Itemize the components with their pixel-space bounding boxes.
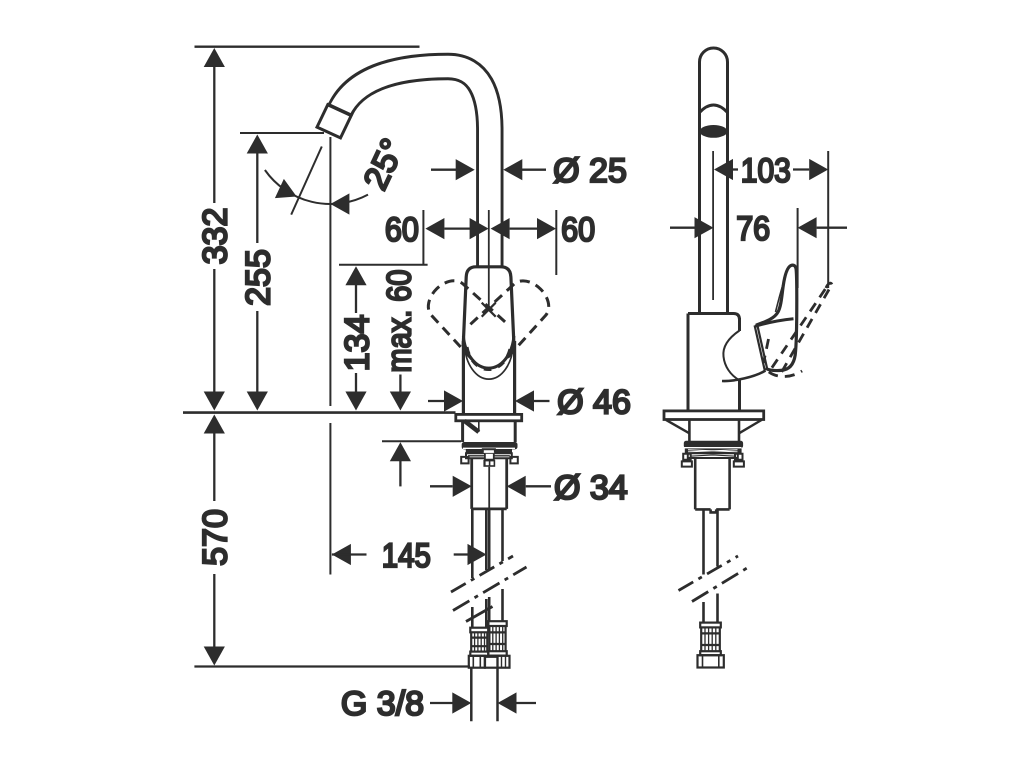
body top edge — [688, 314, 740, 320]
right hose connector — [485, 621, 510, 668]
dim 103 — [714, 159, 733, 180]
handle dome inner ring arc — [465, 345, 513, 379]
gasket band — [462, 442, 518, 449]
25 degree tilted line — [291, 147, 322, 215]
dim max 60 — [399, 375, 401, 393]
plate skirt slants — [666, 420, 762, 433]
dim 145 — [332, 544, 351, 565]
tab row (side) — [683, 454, 742, 460]
pipe inner reference line — [712, 151, 714, 300]
hose lower (side) — [704, 594, 718, 623]
svg-text:G 3/8: G 3/8 — [341, 685, 424, 723]
break lines (side) — [679, 556, 739, 591]
dim Ø 34 — [430, 485, 453, 487]
handle centre cross — [482, 303, 496, 317]
dim 134 — [345, 266, 366, 285]
underside arrow — [390, 442, 411, 461]
seam double line — [755, 325, 768, 371]
hose connector (side) — [698, 623, 724, 668]
dim Ø 25 — [431, 169, 456, 171]
shank inner rod detail — [485, 454, 494, 460]
svg-text:134: 134 — [338, 315, 376, 372]
spout tube band (outer black, inner white) — [340, 67, 490, 269]
handle swung left (dashed) — [419, 271, 507, 359]
body right edge upper — [738, 318, 741, 331]
escutcheon plate (side) — [664, 411, 764, 420]
svg-text:103: 103 — [741, 152, 791, 190]
dim 255 — [247, 135, 268, 154]
lever base bottom — [722, 371, 766, 382]
body below plate — [463, 421, 516, 442]
svg-text:255: 255 — [240, 249, 278, 306]
svg-text:332: 332 — [197, 208, 235, 265]
collar lower band — [466, 453, 512, 458]
ext line 145 — [329, 137, 331, 575]
break lines — [451, 556, 513, 592]
hose upper (side) — [704, 509, 718, 574]
collar lower band (side) — [688, 453, 738, 458]
svg-text:Ø 34: Ø 34 — [554, 469, 628, 507]
faucet body column — [463, 341, 514, 415]
svg-text:60: 60 — [561, 211, 595, 249]
handle dome outer arc — [463, 336, 514, 368]
lever solid outline — [756, 265, 797, 370]
svg-text:Ø 25: Ø 25 — [553, 152, 627, 190]
handle solid outline — [463, 267, 514, 346]
spout aerator nozzle — [317, 105, 351, 138]
countertop line — [183, 411, 456, 414]
svg-text:76: 76 — [736, 210, 770, 248]
underside line — [382, 440, 461, 442]
hoses lower — [472, 599, 486, 628]
lever inner line — [776, 280, 785, 312]
dim 332 — [204, 48, 225, 67]
hoses upper — [472, 509, 486, 578]
aerator joint line — [327, 104, 352, 115]
svg-text:145: 145 — [382, 537, 431, 575]
escutcheon plate — [456, 414, 522, 420]
spout centerline — [488, 210, 490, 309]
body below plate — [689, 420, 739, 442]
rod slot — [483, 449, 495, 453]
G3/8 tail tube — [471, 668, 497, 722]
left hose connector — [469, 628, 488, 668]
handle swung right (dashed) — [470, 272, 558, 360]
pipe with rounded cap — [700, 48, 728, 314]
ext line 255 — [240, 132, 324, 134]
25 degree arc — [265, 170, 368, 204]
svg-text:Ø 46: Ø 46 — [557, 384, 631, 422]
aerator ellipse (side) — [700, 125, 728, 138]
dome rim tick dashes — [467, 347, 511, 369]
svg-text:570: 570 — [197, 509, 235, 566]
cut flag — [464, 421, 478, 432]
collar dark ring — [466, 449, 512, 453]
svg-text:60: 60 — [385, 211, 419, 249]
collar dark ring (side) — [685, 448, 742, 453]
gasket band (side) — [684, 441, 743, 449]
collar top line — [755, 319, 793, 326]
dim 570 — [204, 415, 225, 434]
base extension line — [194, 665, 470, 667]
body right edge lower — [738, 380, 741, 411]
ext line handle top — [339, 264, 428, 266]
tab row — [461, 457, 518, 464]
top extension line — [195, 46, 420, 48]
cap seam arc — [700, 105, 728, 113]
body left edge — [687, 314, 690, 412]
lever dashed swung position — [764, 283, 832, 376]
shank tube — [472, 458, 507, 509]
shank tube (side) — [695, 458, 729, 512]
svg-text:max. 60: max. 60 — [381, 270, 419, 373]
dim 76 — [670, 227, 695, 229]
cone silhouette curve — [723, 331, 739, 381]
dim Ø 46 — [428, 400, 445, 402]
